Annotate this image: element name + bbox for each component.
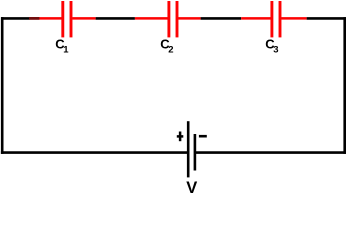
battery negative plate (short) [194, 134, 197, 171]
battery positive plate (long) [187, 121, 190, 177]
plus sign [177, 135, 184, 138]
wire overlap dark red segment [29, 17, 39, 20]
capacitor C2 [135, 1, 201, 37]
capacitor C3 [241, 1, 306, 37]
C2 right plate [176, 1, 179, 37]
wire red lead left of C1 [29, 17, 61, 20]
wire top-right black segment [307, 17, 346, 20]
wire red lead right of C2 [178, 17, 200, 20]
svg-text:C1: C1 [55, 37, 69, 56]
wire red lead left of C2 [135, 17, 168, 20]
svg-text:V: V [186, 179, 197, 197]
C2 left plate [167, 1, 170, 37]
svg-text:C2: C2 [160, 37, 173, 56]
wire bottom-left segment [1, 151, 188, 154]
wire black between C1 and C2 [96, 17, 135, 20]
wire red lead left of C3 [241, 17, 271, 20]
C1 left plate [61, 1, 64, 37]
C1 right plate [70, 1, 73, 37]
wire red lead right of C1 [72, 17, 95, 20]
minus sign [199, 135, 207, 138]
wire black between C2 and C3 [201, 17, 242, 20]
C3 right plate [279, 1, 282, 37]
svg-text:C3: C3 [265, 37, 278, 56]
wire left side [1, 17, 4, 154]
wire top-left black segment [1, 17, 30, 20]
C3 left plate [270, 1, 273, 37]
capacitor C1 [29, 1, 96, 37]
wire bottom-right segment [196, 151, 346, 154]
battery V [177, 121, 207, 177]
wire red lead right of C3 [281, 17, 306, 20]
wire right side [343, 17, 346, 154]
